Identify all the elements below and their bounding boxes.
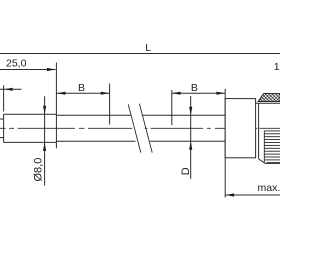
svg-text:1): 1) xyxy=(274,61,280,73)
svg-text:Ø8,0: Ø8,0 xyxy=(32,158,44,182)
svg-text:B: B xyxy=(191,82,198,94)
svg-text:L: L xyxy=(145,42,151,54)
svg-text:D: D xyxy=(180,167,192,175)
svg-text:max.: max. xyxy=(258,182,281,194)
svg-text:25,0: 25,0 xyxy=(6,58,27,70)
svg-text:B: B xyxy=(78,82,85,94)
